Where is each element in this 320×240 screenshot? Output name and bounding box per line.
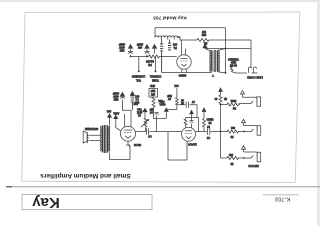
tube V3 pin bottom: [182, 69, 187, 73]
svg-text:4B: 4B: [181, 98, 184, 101]
svg-text:47K: 47K: [135, 94, 140, 97]
svg-text:A61: A61: [160, 100, 165, 103]
wire grid hline: [186, 118, 199, 132]
wire V1 cathode loop: [168, 132, 187, 161]
svg-text:A001: A001: [113, 112, 119, 115]
capacitor C8 pin2: [190, 114, 194, 127]
transformer T2 output primary: [102, 126, 104, 153]
potentiometer VR1 arrow: [141, 119, 149, 127]
svg-text:R6: R6: [232, 107, 236, 110]
wire bus x220: [220, 105, 222, 159]
svg-text:280: 280: [201, 33, 206, 37]
tube V3 35W4 rectifier envelope: [177, 55, 191, 69]
svg-text:C3: C3: [148, 135, 152, 138]
svg-text:Kay: Kay: [32, 194, 60, 211]
svg-text:TBA: TBA: [137, 107, 142, 110]
svg-text:NFD: NFD: [150, 84, 155, 87]
node dot bus-48: [225, 48, 227, 50]
node B arrow stub: [114, 115, 118, 118]
resistor R7 bleeder: [219, 92, 222, 104]
speaker SP1 voice coil: [86, 133, 89, 143]
svg-text:5MEG: 5MEG: [206, 118, 213, 121]
jack J3 input2: [242, 146, 261, 162]
jack J1 speaker jack: [239, 91, 261, 107]
svg-text:500K: 500K: [230, 99, 236, 102]
ground arrow A61 node: [164, 108, 168, 111]
transformer T2 core: [104, 125, 106, 153]
svg-text:A01: A01: [106, 109, 111, 112]
svg-text:20MF: 20MF: [136, 43, 143, 46]
thermistor RT1 zigzag: [230, 67, 240, 74]
box B2: [149, 89, 158, 98]
resistor R1: [197, 38, 212, 41]
winding R3 with ground arrow: [130, 92, 134, 96]
wire B+ filter: [131, 56, 149, 58]
capacitor C7 plates: [186, 102, 197, 108]
svg-text:LOUDNESS: LOUDNESS: [132, 75, 146, 78]
svg-text:MAX: MAX: [137, 110, 143, 113]
speaker SP1 cone: [83, 131, 87, 143]
wire hump exit to rail2: [177, 38, 197, 41]
capacitor C5: [154, 112, 158, 131]
svg-text:302: 302: [230, 126, 235, 129]
scan edge right: [317, 0, 320, 226]
wire tone drop: [155, 57, 157, 72]
wire vertical bus x225: [225, 28, 227, 74]
svg-text:THERMO: THERMO: [228, 57, 239, 60]
wire cathode bus: [154, 118, 167, 120]
tube V3 grid dashes: [181, 60, 188, 62]
tube V1 plate bar: [185, 130, 192, 132]
tube V3 plate bar: [181, 58, 188, 60]
svg-text:RES: RES: [231, 60, 236, 63]
wire grid pin2: [130, 110, 132, 127]
svg-text:INPUTS: INPUTS: [248, 164, 258, 168]
svg-text:35W4: 35W4: [178, 74, 186, 78]
tube V1 12AU6 envelope: [182, 127, 196, 141]
svg-text:50C5: 50C5: [134, 143, 141, 147]
svg-text:Small and Medium Amplifiers: Small and Medium Amplifiers: [40, 172, 131, 179]
tube V2 cathode stem: [126, 141, 130, 147]
svg-text:Kay Model 703: Kay Model 703: [153, 15, 187, 21]
svg-text:40MF: 40MF: [118, 43, 125, 46]
ground arrow VR1: [143, 108, 147, 112]
ground arrow G5: [219, 88, 223, 92]
svg-text:5MF: 5MF: [167, 94, 172, 97]
wire rail2 to line cord: [212, 40, 252, 67]
svg-text:SPEAKER: SPEAKER: [85, 127, 98, 131]
resistor R10 to jack3: [227, 157, 244, 160]
svg-text:T: T: [212, 73, 214, 77]
wire loudness drop: [138, 57, 140, 72]
tube V2 grid dashes: [124, 132, 131, 134]
tiny copyright line: [263, 194, 299, 195]
svg-text:450V: 450V: [113, 95, 119, 98]
inductor L1 heater humps: [155, 36, 180, 40]
footer rule line: [6, 186, 320, 188]
tube V2 plate bar: [124, 129, 132, 131]
svg-text:WF: WF: [149, 108, 153, 111]
node dot C1: [130, 56, 132, 58]
ground arrow G3: [190, 110, 194, 114]
node A arrow stub: [108, 114, 112, 117]
terminal dot tone: [155, 70, 157, 72]
tube V3 pin top1: [181, 40, 183, 55]
svg-text:40MF: 40MF: [112, 92, 119, 95]
svg-text:302: 302: [228, 153, 233, 156]
capacitor C3c coupling: [146, 128, 181, 135]
svg-text:FIL: FIL: [173, 46, 177, 49]
svg-text:45V: 45V: [137, 46, 142, 49]
capacitor C1 electrolytic: [128, 49, 133, 57]
Kay logo box: [22, 194, 152, 209]
svg-text:FR: FR: [148, 63, 152, 67]
node dot 220-104: [220, 104, 222, 106]
svg-text:1R8: 1R8: [133, 102, 138, 105]
wire grid top rail: [177, 104, 186, 106]
jack J2 input1: [242, 119, 261, 135]
resistor R6 5meg: [203, 112, 206, 131]
capacitor C2 plates: [208, 128, 227, 134]
transformer T1 primary winding: [211, 51, 213, 72]
svg-text:NE3: NE3: [113, 98, 118, 101]
svg-text:1R: 1R: [230, 162, 233, 165]
capacitor C2f electrolytic: [145, 49, 150, 57]
wire plate line y131: [196, 131, 207, 133]
resistor R4 vertical: [152, 97, 155, 119]
svg-text:C7: C7: [191, 100, 195, 103]
ground chassis arrow G2: [203, 44, 207, 48]
wire T2 bottom to cathode loop: [109, 145, 130, 160]
wire grid pin: [124, 121, 126, 127]
wire top rail: [155, 27, 226, 29]
wire rail corner down: [154, 28, 156, 38]
svg-text:60-3R: 60-3R: [230, 63, 237, 66]
terminal dot loudness: [138, 70, 140, 72]
tube V3 filament: [182, 64, 187, 67]
resistor R8 to jack1: [221, 103, 241, 106]
svg-text:CONTROL: CONTROL: [149, 75, 161, 78]
wire speaker leads: [90, 135, 101, 140]
wire node stub: [176, 88, 178, 97]
wire heater feed: [205, 48, 251, 50]
ground arrow C2f: [145, 45, 149, 49]
resistor R9 to jack2: [227, 130, 244, 133]
tube V2 filament: [125, 136, 131, 139]
svg-text:VOL: VOL: [135, 78, 140, 81]
node dot 220-131: [220, 131, 222, 133]
svg-text:40: 40: [214, 97, 217, 100]
winding W2 bars: [168, 40, 171, 51]
border frame: [22, 12, 300, 183]
svg-text:NE3: NE3: [119, 49, 124, 52]
svg-text:3MF: 3MF: [150, 89, 155, 91]
svg-text:25V: 25V: [150, 93, 155, 95]
wire plate to coupling cap: [136, 131, 146, 133]
resistor R2 filter: [149, 55, 177, 58]
svg-text:TONE: TONE: [152, 78, 159, 81]
ground chassis arrow G1: [152, 45, 156, 54]
winding W1 bars: [160, 40, 163, 73]
tube V2 50C5 envelope: [121, 126, 136, 141]
ground arrow G4: [202, 108, 206, 112]
node dot C2f: [146, 56, 148, 58]
svg-text:12AU6: 12AU6: [188, 142, 197, 146]
scan edge top: [0, 0, 320, 2]
capacitor C3 electrolytic: [120, 92, 124, 96]
wire T1 bottom rail: [162, 72, 226, 73]
svg-text:63V: 63V: [172, 42, 177, 45]
node dot jack3: [243, 157, 245, 159]
svg-text:C2: C2: [206, 136, 210, 139]
tube V3 pin top2: [185, 49, 187, 56]
svg-text:2R: 2R: [208, 121, 211, 124]
wire arrow to transformer top: [205, 49, 212, 51]
transformer T2 secondary: [107, 126, 109, 153]
tube V1 filament: [186, 136, 191, 138]
tube V1 grid dashes: [185, 132, 192, 134]
transformer T1 core: [214, 50, 215, 72]
svg-text:10,000: 10,000: [145, 59, 153, 63]
svg-text:12: 12: [207, 125, 210, 128]
ground arrow C1: [128, 45, 132, 49]
wire line cord lead: [239, 72, 247, 74]
node dot bus-72: [225, 72, 227, 74]
node dot jack2: [243, 131, 245, 133]
svg-text:FB: FB: [230, 135, 233, 138]
svg-text:1R: 1R: [181, 101, 184, 104]
svg-text:1R: 1R: [224, 97, 227, 100]
wire grid pin1 upper: [124, 114, 126, 121]
svg-text:310A: 310A: [159, 103, 165, 106]
svg-text:450V: 450V: [119, 46, 125, 49]
wire link y109: [168, 109, 177, 111]
potentiometer VR1: [144, 118, 147, 132]
wire corner to grid line: [196, 105, 198, 118]
svg-text:K-703: K-703: [275, 196, 290, 202]
resistor R5 grid stopper: [184, 118, 187, 128]
wire T1 secondary top to bus: [217, 49, 225, 51]
svg-text:A61: A61: [174, 84, 179, 87]
plug P1 prongs: [249, 67, 258, 73]
svg-text:LINE CORD: LINE CORD: [247, 75, 263, 79]
resistor R11 vertical: [176, 97, 179, 109]
wire bus to input2: [221, 157, 228, 159]
transformer T1 secondary winding: [216, 51, 218, 72]
